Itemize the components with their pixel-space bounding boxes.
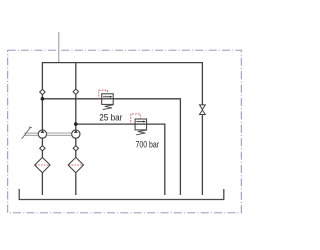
svg-text:25 bar: 25 bar xyxy=(99,112,122,122)
svg-text:700 bar: 700 bar xyxy=(136,140,160,150)
